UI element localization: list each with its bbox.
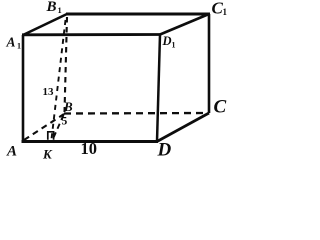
edge DC xyxy=(157,113,209,142)
svg-text:13: 13 xyxy=(43,86,55,98)
edge D1D xyxy=(157,35,160,142)
edge BC dashed xyxy=(64,112,208,115)
length label 10 xyxy=(81,139,98,158)
point label K xyxy=(42,147,53,162)
svg-text:A: A xyxy=(6,35,16,50)
vertex label C xyxy=(214,97,227,118)
vertex label B xyxy=(63,99,73,114)
segment BK dashed xyxy=(53,115,64,140)
svg-text:B: B xyxy=(63,99,73,114)
length label 13 xyxy=(43,86,55,98)
svg-text:1: 1 xyxy=(58,5,62,15)
svg-text:5: 5 xyxy=(62,116,68,128)
vertex label C1 xyxy=(212,0,228,18)
svg-text:D: D xyxy=(157,140,172,160)
edge B1B dashed xyxy=(65,17,68,112)
edge C1C xyxy=(208,14,211,113)
svg-text:10: 10 xyxy=(81,139,98,158)
edge A1B1 xyxy=(23,14,67,35)
vertex label A xyxy=(6,144,17,160)
vertex label B1 xyxy=(46,0,62,15)
svg-text:D: D xyxy=(162,34,172,48)
edge A1A xyxy=(22,35,25,142)
vertex label D1 xyxy=(162,34,176,50)
right angle mark at K xyxy=(48,132,54,140)
edge A1D1 xyxy=(22,33,160,36)
edge D1C1 xyxy=(160,14,209,35)
svg-text:C: C xyxy=(214,97,227,118)
vertex label A1 xyxy=(6,35,22,51)
svg-text:K: K xyxy=(42,147,53,160)
length label 5 xyxy=(62,116,68,128)
edge B1C1 xyxy=(66,13,210,16)
vertex label D xyxy=(157,140,172,161)
edge AD xyxy=(22,140,159,143)
svg-text:1: 1 xyxy=(17,42,21,51)
svg-text:A: A xyxy=(6,144,17,160)
edge AB dashed xyxy=(24,114,64,140)
segment B1K dashed xyxy=(52,20,66,139)
svg-text:B: B xyxy=(46,0,57,15)
svg-text:1: 1 xyxy=(172,41,176,50)
svg-text:1: 1 xyxy=(223,7,228,17)
